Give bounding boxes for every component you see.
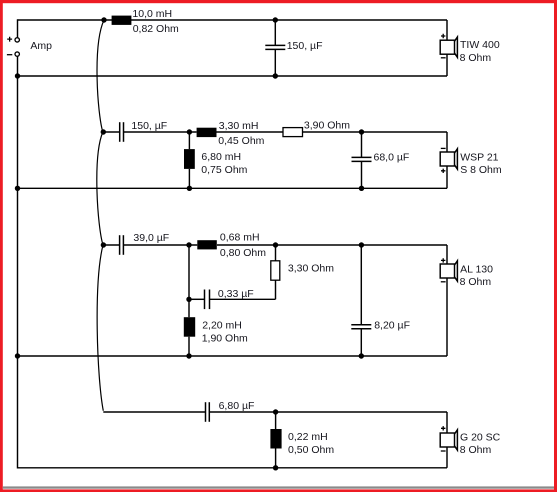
svg-text:0,80 Ohm: 0,80 Ohm (220, 247, 266, 259)
svg-text:0,50 Ohm: 0,50 Ohm (288, 444, 334, 456)
capacitor 150 uF branch1 plates (265, 45, 285, 49)
label 10,0 mH (132, 8, 172, 20)
wire: branch1 top rail (18, 19, 448, 21)
label amp plus (7, 37, 12, 42)
label 2,20 mH (202, 320, 242, 332)
speaker G 20 SC wires (446, 412, 448, 468)
label 0,68 mH (220, 232, 260, 244)
amp minus terminal (15, 52, 19, 56)
label speaker3 minus (441, 281, 446, 283)
svg-text:S 8 Ohm: S 8 Ohm (460, 164, 502, 176)
wire: 0,33 uF row segments (189, 298, 276, 300)
svg-text:8 Ohm: 8 Ohm (460, 52, 492, 64)
label speaker3 plus (441, 258, 445, 262)
svg-text:Amp: Amp (30, 40, 52, 52)
svg-text:3,30 mH: 3,30 mH (219, 120, 259, 132)
capacitor 8,20 uF plates (351, 325, 371, 329)
label 3,90 Ohm (304, 120, 350, 132)
svg-text:1,90 Ohm: 1,90 Ohm (202, 333, 248, 345)
label 8 Ohm branch3 (460, 276, 492, 288)
speaker TIW 400 wires (446, 20, 448, 76)
svg-text:0,33 µF: 0,33 µF (218, 288, 254, 300)
label speaker1 plus (441, 34, 445, 38)
label speaker1 minus (441, 57, 446, 59)
svg-text:0,75 Ohm: 0,75 Ohm (201, 164, 247, 176)
wire: branch2 top rail segments (103, 131, 447, 133)
label speaker4 minus (441, 450, 446, 452)
label speaker2 plus (441, 169, 445, 173)
label 6,80 uF (219, 400, 255, 412)
wire: amp plus lead (17, 19, 19, 37)
svg-text:39,0 µF: 39,0 µF (133, 232, 169, 244)
capacitor 68,0 uF plates (352, 157, 372, 161)
label 3,30 mH (219, 120, 259, 132)
wire: branch3 bottom rail (18, 355, 448, 357)
wire: curved feed bus (97, 20, 104, 411)
label amp minus (7, 54, 12, 56)
speaker TIW 400 symbol (440, 37, 457, 57)
label 39,0 uF (133, 232, 169, 244)
svg-text:3,30 Ohm: 3,30 Ohm (288, 263, 334, 275)
capacitor 39,0 uF plates (120, 235, 124, 255)
resistor 3,30 Ohm leads (275, 245, 277, 299)
amp plus terminal (15, 38, 19, 42)
capacitor 8,20 uF leads (360, 245, 362, 356)
svg-text:AL 130: AL 130 (460, 264, 493, 276)
junction dots branch2 (15, 129, 364, 191)
label speaker4 plus (441, 426, 445, 430)
label 0,50 Ohm (288, 444, 334, 456)
resistor 3,90 Ohm (283, 128, 303, 137)
label 0,22 mH (288, 431, 328, 443)
label AL 130 (460, 264, 493, 276)
svg-text:150, µF: 150, µF (131, 120, 167, 132)
inductor 6,80 mH shunt leads (188, 132, 190, 188)
svg-text:8 Ohm: 8 Ohm (460, 444, 492, 456)
label 3,30 Ohm (288, 263, 334, 275)
label 8,20 uF (374, 319, 410, 331)
label 0,45 Ohm (218, 135, 264, 147)
wire: zobel vertical branch3 (188, 245, 190, 299)
label 0,82 Ohm (133, 23, 179, 35)
speaker WSP 21 symbol (440, 149, 457, 169)
speaker AL 130 symbol (440, 261, 457, 281)
label 0,80 Ohm (220, 247, 266, 259)
label G 20 SC (460, 431, 501, 443)
inductor 0,22 mH (270, 429, 281, 449)
svg-text:68,0 µF: 68,0 µF (374, 152, 410, 164)
svg-text:3,90 Ohm: 3,90 Ohm (304, 120, 350, 132)
svg-text:8,20 µF: 8,20 µF (374, 319, 410, 331)
wire: branch4 top rail segments (103, 411, 447, 413)
label 150, uF branch1 (287, 40, 323, 52)
svg-text:TIW 400: TIW 400 (460, 39, 500, 51)
label 6,80 mH (201, 151, 241, 163)
red selection border left (0, 0, 3, 492)
label S 8 Ohm (460, 164, 502, 176)
svg-text:10,0 mH: 10,0 mH (132, 8, 172, 20)
capacitor 6,80 uF plates (206, 402, 210, 422)
svg-text:2,20 mH: 2,20 mH (202, 320, 242, 332)
capacitor 150 uF branch1 leads (274, 20, 276, 76)
svg-text:6,80 mH: 6,80 mH (201, 151, 241, 163)
label 150, uF branch2 (131, 120, 167, 132)
svg-text:150, µF: 150, µF (287, 40, 323, 52)
svg-text:8 Ohm: 8 Ohm (460, 276, 492, 288)
svg-text:6,80 µF: 6,80 µF (219, 400, 255, 412)
wire: branch1 ground rail (18, 75, 448, 77)
junction dots branch4 (273, 409, 278, 470)
label TIW 400 (460, 39, 500, 51)
red selection border right (554, 0, 557, 492)
wire: branch3 top rail segments (103, 244, 447, 246)
gray window edge bottom (3, 486, 554, 488)
resistor 3,30 Ohm (271, 261, 280, 280)
junction dots branch1 (15, 17, 278, 78)
inductor 0,68 mH (197, 240, 217, 249)
junction dots branch3 (15, 242, 364, 358)
svg-text:0,22 mH: 0,22 mH (288, 431, 328, 443)
inductor 2,20 mH (184, 317, 195, 337)
svg-text:0,68 mH: 0,68 mH (220, 232, 260, 244)
inductor 3,30 mH branch2 (197, 128, 217, 137)
label 0,75 Ohm (201, 164, 247, 176)
svg-text:0,82 Ohm: 0,82 Ohm (133, 23, 179, 35)
inductor 10,0 mH branch1 (112, 16, 132, 25)
speaker G 20 SC symbol (440, 430, 457, 450)
capacitor 0,33 uF plates (205, 290, 210, 310)
label 1,90 Ohm (202, 333, 248, 345)
capacitor 150 uF branch2 plates (120, 122, 124, 142)
inductor 2,20 mH leads (188, 299, 190, 356)
inductor 6,80 mH shunt (184, 149, 195, 169)
wire: branch2 bottom rail (18, 187, 448, 189)
label WSP 21 (460, 151, 498, 163)
red selection border bottom (0, 489, 557, 492)
label 8 Ohm branch1 (460, 52, 492, 64)
svg-text:G 20 SC: G 20 SC (460, 431, 501, 443)
capacitor 68,0 uF leads (361, 132, 363, 188)
label 8 Ohm branch4 (460, 444, 492, 456)
svg-text:0,45 Ohm: 0,45 Ohm (218, 135, 264, 147)
label 0,33 uF (218, 288, 254, 300)
label Amp (30, 40, 52, 52)
label 68,0 uF (374, 152, 410, 164)
speaker AL 130 wires (446, 245, 448, 356)
red selection border top (0, 0, 557, 3)
wire: left return bus vertical (18, 57, 448, 468)
svg-text:WSP 21: WSP 21 (460, 151, 498, 163)
label speaker2 minus (441, 147, 446, 149)
inductor 0,22 mH leads (275, 412, 277, 468)
speaker WSP 21 wires (446, 132, 448, 188)
